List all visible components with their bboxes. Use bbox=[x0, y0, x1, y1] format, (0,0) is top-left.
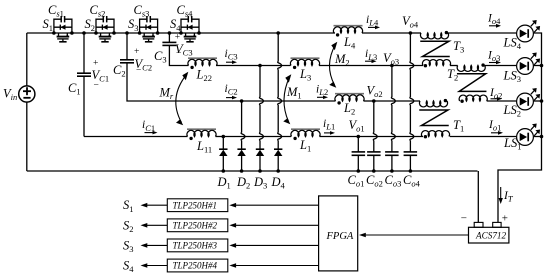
label S3 bbox=[128, 17, 139, 33]
ACS712 minus terminal bbox=[474, 222, 483, 227]
node LS3 rail bbox=[540, 64, 544, 68]
label D4 bbox=[271, 175, 286, 191]
wire Co2 to ground rail bbox=[373, 155, 375, 171]
core of coupled inductor L22 bbox=[188, 57, 217, 59]
label ACS712 bbox=[475, 230, 507, 240]
FPGA box bbox=[319, 196, 358, 271]
label Co1 bbox=[348, 173, 365, 189]
label S1 gate bbox=[123, 198, 134, 214]
diode D4 bbox=[274, 149, 282, 171]
node D2 bottom bbox=[240, 169, 244, 173]
node Co4 bottom bbox=[409, 169, 413, 173]
wire row1 to L11 bbox=[84, 136, 188, 138]
label Vo3 bbox=[383, 51, 399, 67]
node D1 bbox=[222, 135, 226, 139]
label iC3 bbox=[225, 48, 238, 62]
inductor L2 bbox=[335, 95, 364, 101]
label TLP250H#1 bbox=[173, 200, 218, 210]
wire L11 to D1 bbox=[216, 136, 224, 138]
arrow Io2 bbox=[491, 97, 503, 101]
label Mr bbox=[159, 86, 174, 102]
label Io2 bbox=[489, 87, 502, 101]
svg-text:+: + bbox=[134, 47, 139, 57]
label M2 bbox=[334, 52, 350, 68]
capacitor C2 bbox=[120, 60, 134, 63]
label iL2 bbox=[316, 83, 328, 97]
arrow Io1 bbox=[491, 131, 503, 135]
label minus bbox=[461, 212, 467, 224]
wire L3 to Vo3 bbox=[319, 65, 392, 67]
arrow iC3 bbox=[226, 60, 237, 64]
wire FPGA to TLP3 bbox=[229, 243, 318, 248]
diode D1 bbox=[219, 137, 227, 172]
wire LS1 to rail bbox=[534, 136, 542, 138]
svg-text:+: + bbox=[502, 213, 508, 225]
label Io3 bbox=[487, 50, 500, 64]
ACS712 plus terminal bbox=[493, 222, 501, 227]
label D1 bbox=[217, 175, 231, 191]
label IT bbox=[503, 190, 514, 204]
TLP250H#3 box bbox=[167, 239, 228, 252]
wire D2 branch vertical bbox=[241, 101, 245, 149]
dot L22 bbox=[190, 66, 193, 69]
label L2 bbox=[343, 101, 355, 117]
wire D4 branch vertical bbox=[278, 33, 282, 149]
wire T3 sec to T2 pri bbox=[450, 65, 458, 67]
core of inductor L3 bbox=[291, 57, 320, 59]
wire C2 to row2 bbox=[127, 63, 226, 101]
node D3 branch bbox=[258, 64, 262, 68]
wire rail to C3 bbox=[168, 33, 170, 42]
mutual coupling arrow M2 bbox=[329, 42, 337, 88]
node Co3 bottom bbox=[390, 169, 394, 173]
node LS1 rail bbox=[540, 135, 544, 139]
label S1 bbox=[43, 17, 54, 33]
core of inductor L2 bbox=[335, 93, 364, 95]
capacitor C1 bbox=[77, 73, 91, 76]
svg-text:ACS712: ACS712 bbox=[475, 230, 507, 240]
label L3 bbox=[299, 67, 311, 83]
arrow TLP2 to S2 bbox=[141, 223, 168, 228]
wire T2 sec to LS2 bbox=[487, 100, 517, 102]
diode D2 bbox=[237, 149, 245, 171]
label +VC2- bbox=[134, 47, 152, 76]
arrow TLP4 to S4 bbox=[141, 263, 168, 268]
LED string LS4 bbox=[517, 20, 541, 42]
dot L4 bbox=[336, 33, 339, 36]
wire Vo4 to T3 primary bbox=[410, 32, 421, 34]
node D4 branch bbox=[276, 31, 280, 35]
wire LS3 to rail bbox=[534, 65, 542, 67]
transformer T2 bbox=[457, 63, 487, 103]
wire FPGA to TLP2 bbox=[229, 223, 318, 228]
TLP250H#2 box bbox=[167, 219, 228, 232]
wire Vin bottom to ground rail bbox=[26, 102, 28, 171]
label T1 bbox=[453, 118, 464, 134]
node C2 tap bbox=[125, 31, 129, 35]
core of inductor L4 bbox=[334, 25, 363, 27]
wire LS2 to rail bbox=[534, 100, 542, 102]
label Io1 bbox=[488, 119, 501, 133]
wire Vo1 to Co1 bbox=[357, 137, 359, 152]
wire Co1 to ground rail bbox=[357, 155, 359, 171]
wire FPGA to TLP1 bbox=[229, 203, 318, 208]
arrow TLP1 to S1 bbox=[141, 203, 168, 208]
voltage source Vin bbox=[19, 86, 35, 102]
capacitor Co2 bbox=[367, 152, 381, 155]
label S4 gate bbox=[123, 259, 134, 275]
LED string LS3 bbox=[517, 53, 541, 75]
wire FPGA to TLP4 bbox=[229, 263, 318, 268]
dot L3 bbox=[293, 66, 296, 69]
wire LED return rail bbox=[498, 33, 542, 222]
capacitor Co4 bbox=[404, 152, 418, 155]
arrow Io4 bbox=[489, 24, 501, 28]
wire rail to C1 bbox=[83, 33, 85, 73]
node Vo4 bbox=[409, 31, 413, 35]
TLP250H#1 box bbox=[167, 199, 228, 212]
wire Vo1 to T1 secondary bbox=[358, 136, 423, 138]
label TLP250H#4 bbox=[173, 261, 218, 271]
inductor L11 bbox=[187, 130, 216, 136]
mutual coupling arrow M1 bbox=[283, 74, 291, 124]
mutual coupling arrow Mr bbox=[176, 72, 188, 125]
svg-text:−: − bbox=[461, 212, 467, 224]
switch S4 with body diode and snubber bbox=[179, 16, 201, 42]
switch S2 with body diode and snubber bbox=[94, 16, 116, 42]
label iL1 bbox=[323, 118, 335, 132]
label +VC1- bbox=[92, 59, 110, 91]
arrow ACS712 to FPGA bbox=[359, 233, 469, 238]
LED string LS1 bbox=[517, 124, 541, 146]
core of inductor L1 bbox=[291, 128, 320, 130]
wire Vo4 to Co4 bbox=[410, 33, 414, 152]
label D3 bbox=[253, 175, 267, 191]
switch S1 with body diode and snubber bbox=[52, 16, 74, 42]
wire row2 to L2 bbox=[226, 100, 336, 102]
switch S3 with body diode and snubber bbox=[138, 16, 160, 42]
transformer T1 bbox=[419, 99, 449, 138]
arrow Io3 bbox=[489, 61, 501, 65]
wire Vo2 to Co2 bbox=[373, 101, 377, 152]
label Co3 bbox=[385, 173, 402, 189]
node C1 tap bbox=[82, 31, 86, 35]
transformer T3 bbox=[420, 31, 450, 67]
wire Vin top to rail bbox=[26, 33, 28, 86]
label Cs1 bbox=[48, 3, 64, 19]
node LS2 rail bbox=[540, 99, 544, 103]
arrow iL2 bbox=[317, 96, 328, 100]
wire Co3 to ground rail bbox=[391, 155, 393, 171]
LED string LS2 bbox=[517, 88, 541, 110]
label L22 bbox=[196, 68, 212, 84]
node Vo2 bbox=[372, 99, 376, 103]
svg-text:−: − bbox=[176, 49, 181, 59]
wire T2 pri to LS3 bbox=[485, 65, 517, 67]
label Cs4 bbox=[177, 3, 194, 19]
label LS3 bbox=[503, 69, 521, 85]
wire ground rail bbox=[27, 170, 478, 172]
dot L11 bbox=[189, 137, 192, 140]
label Vin bbox=[3, 87, 17, 103]
arrow iL3 bbox=[365, 59, 377, 63]
svg-text:+: + bbox=[175, 33, 180, 43]
node D4 bottom bbox=[276, 169, 280, 173]
wire Vo3 to Co3 bbox=[391, 66, 395, 152]
label TLP250H#3 bbox=[173, 241, 218, 251]
label +VC3- bbox=[175, 33, 193, 60]
arrow iL4 bbox=[368, 26, 380, 30]
label LS1 bbox=[503, 136, 521, 152]
label S2 bbox=[85, 17, 96, 33]
node Vo3 bbox=[390, 64, 394, 68]
node D2 branch bbox=[240, 99, 244, 103]
label L11 bbox=[196, 139, 212, 155]
label C1 bbox=[68, 81, 81, 97]
ACS712 box bbox=[469, 227, 509, 243]
label Io4 bbox=[487, 13, 501, 27]
capacitor C3 bbox=[162, 42, 176, 45]
label FPGA bbox=[326, 231, 354, 242]
label Co2 bbox=[366, 173, 383, 189]
label LS4 bbox=[503, 36, 522, 52]
node D1 bottom bbox=[222, 169, 226, 173]
label Vo2 bbox=[367, 84, 383, 100]
arrow iL1 bbox=[324, 131, 335, 135]
wire L4 to Vo4 bbox=[362, 32, 410, 34]
label D2 bbox=[236, 175, 250, 191]
inductor L22 bbox=[188, 59, 217, 65]
wire C3 to row3 bbox=[169, 45, 188, 65]
svg-text:+: + bbox=[93, 59, 98, 69]
svg-text:FPGA: FPGA bbox=[326, 231, 354, 242]
wire Co4 to ground rail bbox=[409, 155, 411, 171]
svg-text:−: − bbox=[94, 81, 99, 91]
node C3 tap bbox=[168, 31, 172, 35]
capacitor Co1 bbox=[352, 152, 366, 155]
wire C1 to row1 bbox=[83, 76, 85, 136]
label S4 bbox=[170, 17, 181, 33]
capacitor Co3 bbox=[385, 152, 399, 155]
wire L2 to Vo2 bbox=[364, 100, 374, 102]
arrow iC1 bbox=[145, 131, 158, 135]
arrow TLP3 to S3 bbox=[141, 243, 168, 248]
label TLP250H#2 bbox=[173, 221, 218, 231]
label iC2 bbox=[225, 83, 238, 97]
label Cs3 bbox=[134, 3, 150, 19]
arrow IT bbox=[499, 187, 503, 204]
wire rail to C2 bbox=[126, 33, 128, 60]
inductor L4 bbox=[333, 27, 362, 33]
wire L1 to Vo1 bbox=[320, 136, 359, 138]
label iL3 bbox=[365, 48, 377, 62]
label L4 bbox=[343, 35, 356, 51]
wire T1 sec to LS1 bbox=[450, 136, 516, 138]
wire T3 pri to LS4 bbox=[448, 32, 516, 34]
label LS2 bbox=[503, 103, 521, 119]
svg-text:TLP250H#2: TLP250H#2 bbox=[173, 221, 218, 231]
label Cs2 bbox=[90, 3, 106, 19]
label plus bbox=[502, 213, 508, 225]
label T3 bbox=[453, 39, 464, 55]
dot L1 bbox=[293, 137, 296, 140]
dot L2 bbox=[337, 101, 340, 104]
wire row1 to L1 bbox=[223, 136, 291, 138]
label L1 bbox=[299, 138, 311, 154]
arrow iC2 bbox=[226, 96, 237, 100]
label S3 gate bbox=[123, 238, 134, 254]
label Vo4 bbox=[402, 14, 419, 30]
svg-text:−: − bbox=[136, 66, 141, 76]
TLP250H#4 box bbox=[167, 259, 228, 272]
label S2 gate bbox=[123, 218, 134, 234]
svg-text:TLP250H#3: TLP250H#3 bbox=[173, 241, 218, 251]
node Co2 bottom bbox=[372, 169, 376, 173]
inductor L1 bbox=[291, 130, 320, 136]
label M1 bbox=[286, 85, 302, 101]
label Co4 bbox=[403, 173, 421, 189]
wire Vo3 to T3 secondary bbox=[392, 65, 423, 67]
node D3 bottom bbox=[258, 169, 262, 173]
svg-text:TLP250H#4: TLP250H#4 bbox=[173, 261, 218, 271]
wire ground rail to ACS712 minus bbox=[477, 171, 479, 222]
svg-text:TLP250H#1: TLP250H#1 bbox=[173, 200, 218, 210]
inductor L3 bbox=[290, 59, 319, 65]
label Vo1 bbox=[349, 118, 365, 134]
label C3 bbox=[154, 49, 167, 65]
node Co1 bottom bbox=[357, 169, 361, 173]
wire Vo2 to T1 primary bbox=[374, 100, 420, 102]
wire L22 to L3 bbox=[216, 65, 291, 67]
label T2 bbox=[447, 67, 458, 83]
diode D3 bbox=[256, 149, 264, 171]
label iL4 bbox=[366, 14, 379, 28]
wire top rail bbox=[27, 32, 335, 34]
core of coupled inductor L11 bbox=[187, 128, 216, 130]
wire D3 branch vertical bbox=[259, 66, 263, 150]
label C2 bbox=[113, 63, 126, 79]
node Vo1 bbox=[357, 135, 361, 139]
label iC1 bbox=[142, 119, 155, 133]
